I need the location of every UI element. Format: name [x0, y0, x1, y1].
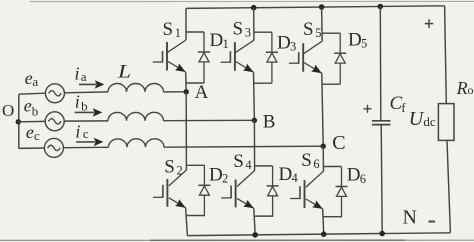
transistor S1: [153, 40, 186, 72]
svg-text:5: 5: [315, 26, 321, 40]
svg-text:5: 5: [361, 37, 367, 51]
wire S2 emitter to negative bus: [186, 208, 188, 236]
label D4: [279, 164, 299, 185]
wire S5 emitter to node C: [322, 73, 323, 146]
wire load branch upper: [445, 6, 447, 104]
node B junction dot: [252, 118, 257, 123]
wire phase b inductor to node B: [164, 119, 255, 121]
wire S6 emitter to negative bus: [323, 209, 324, 234]
svg-text:e: e: [24, 95, 32, 115]
svg-text:D: D: [347, 165, 361, 186]
wire phase a from bus to source: [19, 93, 46, 94]
diode D6: [336, 167, 348, 218]
current arrow ib: [75, 108, 103, 116]
wire phase c from bus to source: [19, 147, 45, 149]
inductor L phase a: [108, 84, 164, 92]
svg-text:N: N: [403, 207, 417, 229]
wire phase c source to inductor: [63, 146, 108, 148]
svg-text:D: D: [348, 30, 362, 51]
label ea: [25, 68, 39, 89]
svg-text:3: 3: [245, 26, 251, 40]
ac source eb: [45, 112, 64, 131]
svg-text:4: 4: [292, 171, 299, 185]
label ia: [75, 63, 87, 84]
svg-text:D: D: [210, 30, 224, 51]
svg-text:S: S: [233, 151, 244, 172]
label D5: [348, 30, 367, 51]
svg-text:1: 1: [223, 37, 229, 51]
label eb: [24, 95, 38, 118]
diode D1: [198, 32, 210, 83]
svg-text:c: c: [34, 128, 40, 143]
wire phase a inductor to node A: [164, 91, 187, 93]
node bottom bus leg3 dot: [321, 231, 327, 237]
svg-text:6: 6: [360, 172, 366, 186]
wire D5 branch top: [322, 32, 340, 34]
wire D2 branch top: [186, 164, 204, 166]
svg-text:O: O: [2, 101, 14, 120]
wire leg2 collector from bus: [253, 8, 255, 41]
svg-text:R: R: [456, 78, 468, 98]
wire leg1 node A to S2: [185, 92, 187, 170]
node O junction dot: [16, 119, 21, 124]
label S4: [233, 151, 252, 172]
wire D4 branch bottom: [254, 215, 272, 217]
svg-text:C: C: [332, 132, 345, 154]
label Udc: [409, 108, 436, 130]
border line top: [30, 0, 474, 2]
border line bottom: [0, 239, 474, 241]
wire left vertical bus: [18, 94, 20, 148]
svg-text:A: A: [195, 82, 209, 103]
svg-text:L: L: [117, 62, 131, 83]
inductor L phase b: [108, 112, 164, 121]
diode D3: [266, 32, 278, 83]
svg-text:4: 4: [245, 158, 252, 172]
svg-text:1: 1: [175, 26, 181, 40]
svg-text:o: o: [468, 83, 474, 97]
wire D5 branch bottom: [322, 83, 340, 85]
svg-text:B: B: [263, 112, 276, 133]
ac source ea: [45, 84, 64, 103]
label S6: [301, 150, 319, 171]
node top bus leg3 dot: [319, 4, 325, 10]
node bottom bus leg2 dot: [252, 232, 258, 238]
label D2: [209, 164, 228, 185]
svg-text:i: i: [75, 121, 80, 141]
diode D2: [198, 165, 210, 216]
resistor Ro: [438, 104, 454, 141]
wire D6 branch bottom: [323, 216, 341, 218]
wire D6 branch top: [324, 166, 342, 168]
inductor L phase c: [109, 139, 165, 148]
wire positive dc bus: [186, 6, 445, 9]
wire leg3 collector from bus: [321, 7, 324, 41]
svg-text:S: S: [233, 18, 244, 39]
svg-text:a: a: [32, 74, 38, 89]
transistor S5: [289, 41, 322, 73]
wire capacitor branch lower: [381, 125, 382, 234]
svg-text:S: S: [164, 157, 175, 178]
wire capacitor branch upper: [379, 7, 382, 121]
wire phase b source to inductor: [64, 120, 108, 122]
svg-text:D: D: [209, 164, 223, 185]
svg-text:D: D: [277, 32, 291, 53]
node C junction dot: [321, 144, 326, 149]
transistor S2: [153, 170, 186, 208]
label Ro: [456, 78, 474, 98]
wire phase a source to inductor: [64, 91, 108, 94]
svg-text:6: 6: [313, 157, 319, 171]
label S3: [233, 18, 251, 39]
label D1: [210, 30, 229, 51]
label S5: [303, 19, 321, 40]
wire S4 emitter to negative bus: [254, 208, 255, 235]
capacitor Cf: [372, 121, 391, 125]
diode D5: [334, 33, 346, 84]
svg-text:D: D: [279, 164, 293, 185]
svg-text:f: f: [401, 100, 406, 115]
node A junction dot: [184, 89, 189, 94]
node top bus capacitor dot: [378, 4, 384, 10]
wire phase b from node O to source: [18, 120, 45, 122]
svg-text:S: S: [301, 150, 312, 171]
transistor S6: [290, 171, 323, 209]
label Cf: [390, 93, 407, 115]
wire negative dc bus: [187, 233, 450, 236]
svg-text:c: c: [83, 126, 89, 141]
ac source ec: [44, 138, 63, 157]
svg-text:a: a: [81, 69, 87, 84]
svg-text:3: 3: [290, 40, 296, 54]
border mark bottom: [150, 239, 405, 241]
svg-text:U: U: [409, 108, 425, 130]
svg-text:i: i: [75, 63, 80, 83]
wire leg3 node C to S6: [322, 146, 324, 171]
current arrow ic: [76, 138, 103, 146]
svg-text:2: 2: [222, 172, 228, 186]
transistor S4: [221, 171, 254, 209]
plus sign capacitor: [364, 105, 372, 113]
label ec: [26, 122, 40, 143]
diode D4: [267, 166, 279, 217]
svg-text:dc: dc: [423, 114, 436, 129]
wire D2 branch bottom: [186, 215, 204, 217]
label D6: [347, 165, 366, 186]
svg-text:b: b: [81, 99, 88, 114]
svg-text:S: S: [303, 19, 314, 40]
plus sign dc positive: [425, 19, 434, 28]
label S1: [163, 19, 181, 40]
label ib: [75, 91, 88, 113]
svg-text:b: b: [32, 104, 39, 119]
wire S1 emitter to node A: [185, 72, 188, 92]
svg-text:S: S: [163, 19, 174, 40]
wire phase c inductor to node C: [164, 146, 323, 147]
wire D1 branch top: [186, 31, 204, 33]
wire D3 branch bottom: [254, 82, 272, 84]
node bottom bus capacitor dot: [379, 231, 385, 237]
svg-text:2: 2: [177, 164, 183, 178]
label ic: [75, 121, 89, 141]
wire D4 branch top: [255, 165, 273, 167]
current arrow ia: [79, 80, 104, 88]
wire leg1 collector from bus: [185, 8, 187, 40]
wire D1 branch bottom: [186, 82, 204, 84]
label S2: [164, 157, 182, 178]
wire S3 emitter to node B: [253, 72, 256, 120]
svg-text:e: e: [26, 122, 34, 142]
label D3: [277, 32, 296, 53]
wire leg2 node B to S4: [253, 120, 255, 170]
wire D3 branch top: [254, 31, 272, 33]
node top bus leg2 dot: [251, 5, 257, 11]
transistor S3: [221, 40, 254, 72]
wire load branch lower: [447, 140, 450, 232]
svg-text:i: i: [75, 91, 80, 111]
minus sign dc negative: [429, 221, 436, 223]
